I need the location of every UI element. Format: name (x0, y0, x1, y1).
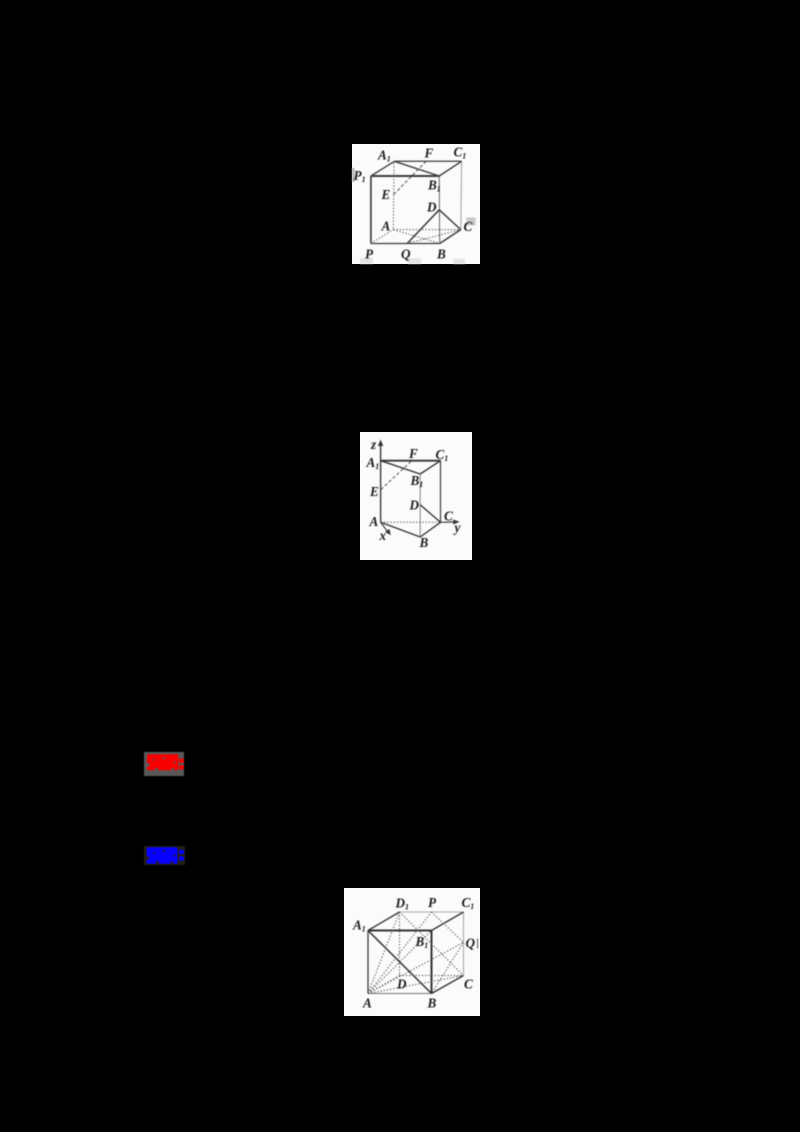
svg-text:P: P (428, 895, 437, 910)
svg-text:C1: C1 (454, 145, 467, 161)
svg-text:B: B (419, 535, 429, 550)
svg-text:D: D (396, 977, 407, 992)
svg-text:x: x (379, 528, 387, 543)
svg-text:B1: B1 (427, 178, 441, 194)
svg-text:A1: A1 (352, 918, 366, 934)
svg-text:B: B (436, 247, 446, 262)
svg-text:B: B (427, 996, 437, 1011)
svg-text:C1: C1 (436, 447, 449, 463)
svg-text:A: A (362, 996, 372, 1011)
svg-text:C1: C1 (462, 895, 475, 911)
svg-text:A1: A1 (377, 148, 391, 164)
svg-text:D1: D1 (395, 896, 410, 912)
svg-text:C: C (464, 219, 473, 234)
svg-text:Q: Q (466, 936, 476, 951)
svg-text:D: D (409, 498, 420, 513)
svg-text:D: D (426, 200, 437, 215)
svg-text:A: A (381, 219, 391, 234)
svg-text:y: y (453, 520, 461, 535)
svg-text:z: z (370, 437, 377, 452)
svg-text:E: E (369, 484, 379, 499)
svg-text:P: P (365, 247, 374, 262)
svg-text:|: | (477, 937, 479, 949)
svg-text:P1: P1 (354, 168, 366, 184)
svg-text:B1: B1 (410, 473, 424, 489)
svg-text:F: F (424, 146, 434, 161)
svg-text:C: C (444, 509, 453, 524)
svg-text:F: F (408, 446, 418, 461)
svg-text:B1: B1 (415, 934, 429, 950)
svg-text:A: A (369, 514, 379, 529)
svg-text:A1: A1 (366, 455, 380, 471)
svg-text:C: C (464, 977, 473, 992)
svg-text:E: E (381, 187, 391, 202)
svg-text:Q: Q (401, 247, 411, 262)
